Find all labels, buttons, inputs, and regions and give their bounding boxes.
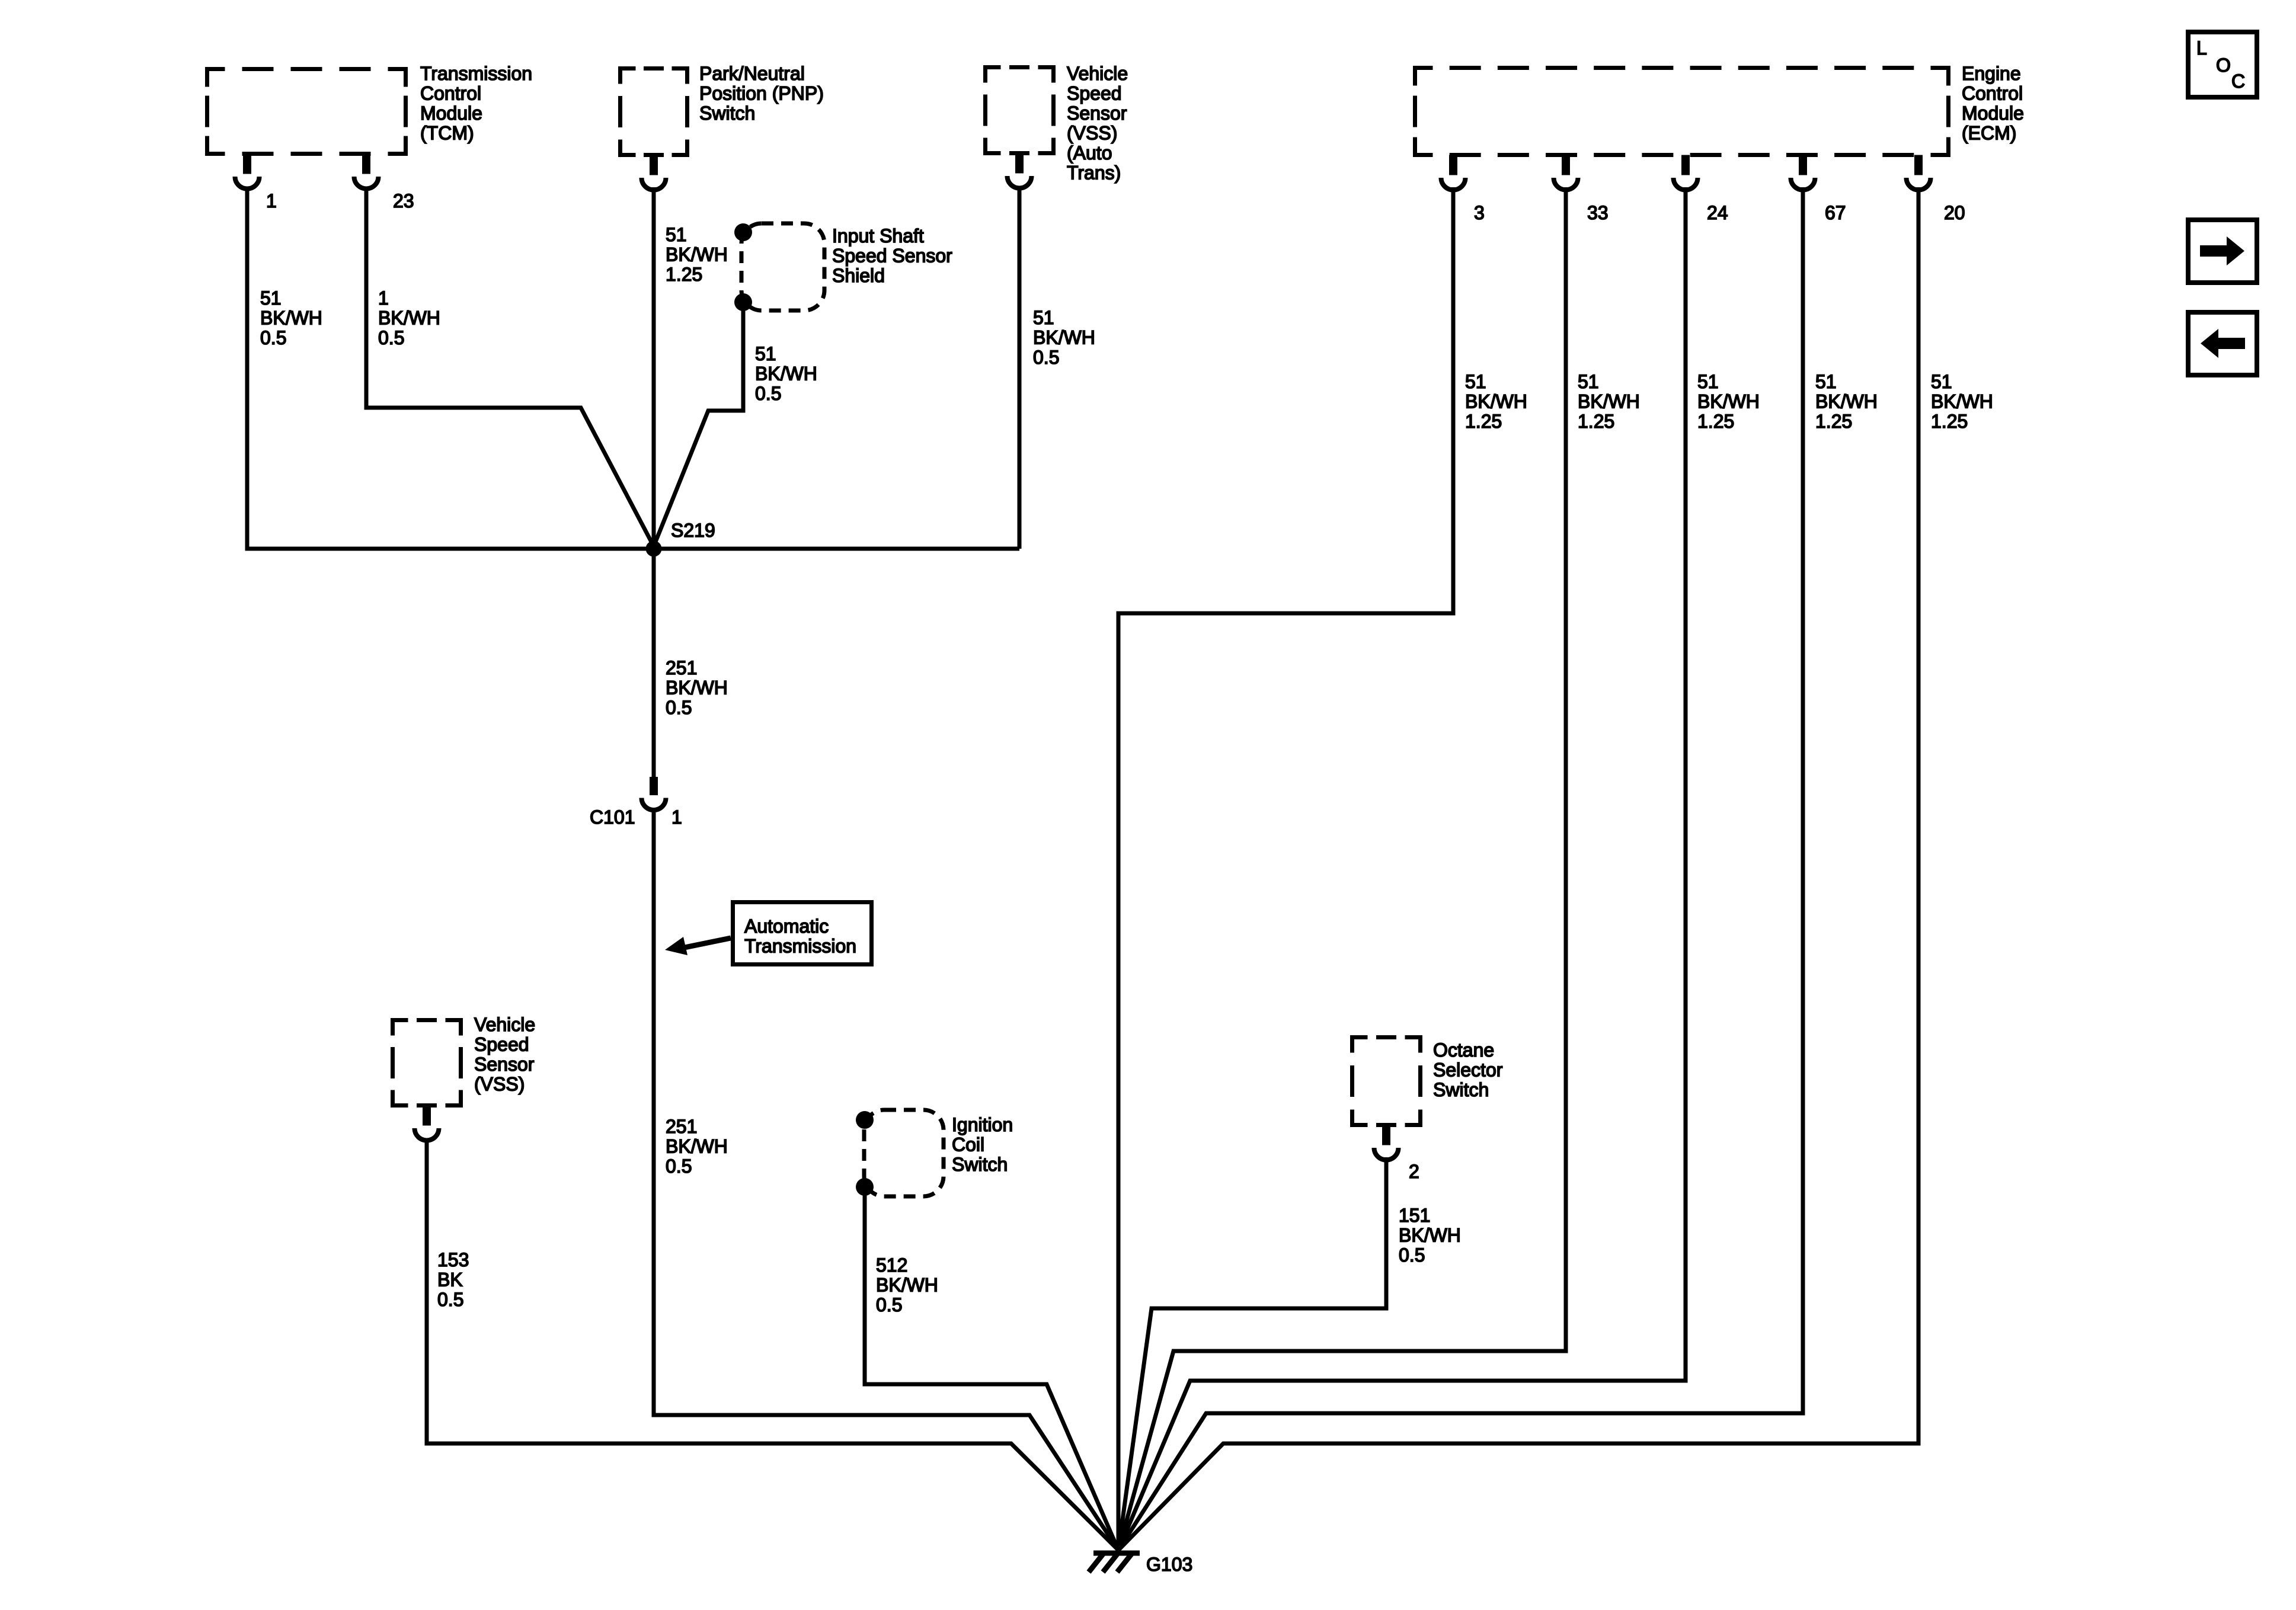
PNP connector [642,155,666,190]
right-arrow glyph [2200,236,2244,265]
svg-text:Switch: Switch [952,1154,1008,1175]
svg-text:(Auto: (Auto [1067,142,1112,164]
wire TCM pin 23 (1 BK/WH 0.5) down-right to S219 [366,187,654,546]
Octane selector switch box (dashed) [1352,1038,1421,1125]
svg-text:BK/WH: BK/WH [666,677,728,699]
svg-text:Speed Sensor: Speed Sensor [832,245,952,267]
svg-text:0.5: 0.5 [1399,1244,1425,1266]
svg-text:BK/WH: BK/WH [1578,391,1640,412]
ECM pin 67 label [1825,202,1846,223]
VSS auto-trans box (dashed) [986,68,1054,153]
VSS bottom connector [415,1106,439,1141]
ECM pin 3 label [1474,202,1485,223]
left-arrow legend box [2188,312,2257,375]
Octane selector pin 2 label [1409,1161,1419,1182]
svg-text:0.5: 0.5 [437,1289,463,1310]
ECM pin 3 connector [1441,155,1466,190]
svg-text:Automatic: Automatic [744,916,829,937]
G103 label [1146,1554,1192,1575]
svg-text:Ignition: Ignition [952,1114,1013,1135]
svg-text:51: 51 [1815,371,1837,392]
automatic transmission callout text [744,916,856,957]
C101 pin 1 label [671,806,682,828]
ECM pin 20 label [1944,202,1965,223]
wire label 1 BK/WH 0.5 (TCM pin23) [378,287,440,348]
wire VSS bottom 153 BK 0.5 to ground [427,1139,1118,1550]
svg-text:0.5: 0.5 [876,1294,902,1315]
splice S219 dot [646,541,662,557]
shield connection dots (ignition coil) [856,1111,874,1196]
svg-text:Position (PNP): Position (PNP) [699,83,824,104]
wire TCM pin 1 (51 BK/WH 0.5) down [245,187,250,549]
wire label 51 BK/WH 0.5 (VSS auto trans) [1033,307,1095,368]
svg-text:Transmission: Transmission [420,63,532,84]
LOC legend box [2188,32,2257,97]
svg-text:Octane: Octane [1433,1039,1494,1061]
svg-text:Switch: Switch [1433,1079,1489,1100]
TCM module box (dashed) [207,69,406,154]
wire ECM pin 33 (51 BK/WH 1.25) to ground [1118,187,1566,1550]
svg-text:BK/WH: BK/WH [260,308,322,329]
LOC legend letters [2196,37,2245,92]
wire 251 BK/WH 0.5 below C101 to ground [654,812,1118,1550]
svg-text:Switch: Switch [699,103,755,124]
svg-text:51: 51 [1578,371,1599,392]
svg-text:BK/WH: BK/WH [876,1275,938,1296]
svg-text:BK/WH: BK/WH [666,244,728,265]
wire ignition coil 512 BK/WH 0.5 to ground [865,1187,1118,1550]
svg-text:BK/WH: BK/WH [1033,327,1095,348]
wire label 153 BK 0.5 [437,1249,469,1310]
svg-text:BK: BK [437,1269,463,1291]
svg-text:(TCM): (TCM) [420,123,474,144]
svg-text:BK/WH: BK/WH [1697,391,1760,412]
svg-text:3: 3 [1474,202,1485,223]
wire ECM pin 3 (51 BK/WH 1.25) to ground [1118,187,1453,1550]
svg-text:1: 1 [378,287,389,309]
S219 label [671,520,715,541]
svg-text:S219: S219 [671,520,715,541]
TCM pin 23 connector [354,154,379,189]
svg-text:Trans): Trans) [1067,162,1121,184]
ECM pin 24 connector [1674,155,1698,190]
svg-text:BK/WH: BK/WH [1815,391,1878,412]
svg-text:BK/WH: BK/WH [666,1136,728,1157]
TCM pin 23 label [393,190,414,212]
svg-text:(ECM): (ECM) [1962,123,2016,144]
svg-text:(VSS): (VSS) [1067,123,1117,144]
ground G103 symbol [1089,1552,1140,1572]
ECM label text [1962,63,2024,144]
wire ECM pin 24 (51 BK/WH 1.25) to ground [1118,187,1686,1550]
svg-text:Speed: Speed [474,1034,529,1055]
svg-text:24: 24 [1707,202,1728,223]
wire label 251 BK/WH 0.5 (lower) [666,1116,728,1177]
svg-text:20: 20 [1944,202,1965,223]
svg-text:1.25: 1.25 [1465,411,1502,432]
svg-text:1.25: 1.25 [1578,411,1614,432]
left-arrow glyph [2201,329,2245,358]
svg-text:Sensor: Sensor [1067,103,1127,124]
svg-text:1.25: 1.25 [1815,411,1852,432]
svg-text:51: 51 [755,343,776,364]
svg-text:0.5: 0.5 [260,327,286,348]
svg-text:153: 153 [437,1249,469,1270]
wire label 51 BK/WH 1.25 (PNP) [666,224,728,285]
connector C101 [642,777,666,810]
automatic transmission arrow [665,937,731,955]
svg-text:Module: Module [1962,103,2024,124]
VSS auto-trans label text [1067,63,1128,184]
TCM pin 1 connector [235,154,260,189]
Octane selector label text [1433,1039,1503,1100]
shield connection dots (input shaft) [734,223,752,311]
svg-text:23: 23 [393,190,414,212]
wire label 51 BK/WH 1.25 (ECM 20) [1931,371,1993,432]
svg-text:51: 51 [1931,371,1952,392]
svg-text:1: 1 [671,806,682,828]
svg-text:251: 251 [666,1116,697,1137]
PNP label text [699,63,824,124]
Octane selector pin 2 connector [1374,1125,1399,1160]
ignition coil switch label text [952,1114,1013,1175]
wire octane 151 BK/WH 0.5 to ground [1118,1157,1386,1550]
svg-text:Speed: Speed [1067,83,1122,104]
svg-text:BK/WH: BK/WH [1399,1225,1461,1246]
svg-text:2: 2 [1409,1161,1419,1182]
ECM module box (dashed) [1415,68,1949,155]
svg-text:51: 51 [260,287,282,309]
VSS bottom box (dashed) [393,1020,461,1106]
wire ECM pin 20 (51 BK/WH 1.25) to ground [1118,187,1918,1550]
svg-text:BK/WH: BK/WH [1465,391,1527,412]
svg-text:O: O [2216,55,2231,76]
ECM pin 33 connector [1554,155,1578,190]
wire 251 BK/WH 0.5 from S219 to C101 [652,549,656,777]
wire ECM pin 67 (51 BK/WH 1.25) to ground [1118,187,1803,1550]
svg-text:1.25: 1.25 [666,264,702,285]
automatic transmission callout box [733,902,872,965]
wire VSS auto-trans (51 BK/WH 0.5) down [1018,187,1022,549]
svg-text:Engine: Engine [1962,63,2021,84]
ignition coil switch shield (dashed barrel) [864,1110,944,1196]
svg-text:BK/WH: BK/WH [755,363,817,385]
svg-text:Selector: Selector [1433,1060,1503,1081]
right-arrow legend box [2188,220,2257,283]
svg-text:1: 1 [266,190,277,212]
wire label 251 BK/WH 0.5 (upper) [666,657,728,718]
wire label 51 BK/WH 0.5 (TCM pin1) [260,287,322,348]
svg-text:512: 512 [876,1254,907,1276]
svg-text:C: C [2231,71,2245,92]
VSS bottom label text [474,1014,535,1095]
svg-text:151: 151 [1399,1205,1430,1226]
ECM pin 20 connector [1907,155,1931,190]
wire shield (51 BK/WH 0.5) to S219 [654,302,743,546]
wire label 151 BK/WH 0.5 [1399,1205,1461,1266]
ECM pin 67 connector [1791,155,1815,190]
svg-text:Module: Module [420,103,482,124]
wire S219 horizontal bus [245,547,1020,551]
svg-text:0.5: 0.5 [1033,347,1059,368]
wire PNP (51 BK/WH 1.25) down to S219 [652,187,656,549]
svg-text:Input Shaft: Input Shaft [832,225,924,247]
svg-text:Shield: Shield [832,265,885,286]
svg-text:0.5: 0.5 [666,697,692,718]
svg-text:G103: G103 [1146,1554,1192,1575]
svg-text:1.25: 1.25 [1931,411,1968,432]
svg-text:Vehicle: Vehicle [1067,63,1128,84]
svg-text:0.5: 0.5 [666,1156,692,1177]
svg-text:251: 251 [666,657,697,678]
input shaft speed sensor shield (dashed barrel) [741,223,824,311]
wire label 512 BK/WH 0.5 [876,1254,938,1315]
svg-text:51: 51 [1465,371,1486,392]
wire label 51 BK/WH 0.5 (shield) [755,343,817,404]
svg-text:51: 51 [1697,371,1719,392]
svg-text:Coil: Coil [952,1134,984,1156]
svg-text:BK/WH: BK/WH [1931,391,1993,412]
input shaft shield label text [832,225,952,286]
ECM pin 24 label [1707,202,1728,223]
svg-text:51: 51 [1033,307,1054,328]
svg-text:33: 33 [1587,202,1609,223]
svg-text:67: 67 [1825,202,1846,223]
svg-text:C101: C101 [590,806,635,828]
svg-text:Transmission: Transmission [744,936,856,957]
TCM pin 1 label [266,190,277,212]
svg-text:51: 51 [666,224,687,245]
VSS auto-trans connector [1008,153,1032,188]
svg-text:(VSS): (VSS) [474,1074,525,1095]
svg-text:Control: Control [420,83,481,104]
svg-text:1.25: 1.25 [1697,411,1734,432]
svg-text:BK/WH: BK/WH [378,308,440,329]
svg-text:Control: Control [1962,83,2023,104]
wire label 51 BK/WH 1.25 (ECM 67) [1815,371,1878,432]
svg-text:0.5: 0.5 [378,327,404,348]
TCM label text [420,63,532,144]
wire label 51 BK/WH 1.25 (ECM 24) [1697,371,1760,432]
wire label 51 BK/WH 1.25 (ECM 3) [1465,371,1527,432]
wire label 51 BK/WH 1.25 (ECM 33) [1578,371,1640,432]
svg-text:Vehicle: Vehicle [474,1014,535,1035]
svg-text:L: L [2196,37,2207,59]
svg-text:0.5: 0.5 [755,383,781,404]
PNP switch box (dashed) [621,69,687,155]
svg-text:Sensor: Sensor [474,1054,535,1075]
svg-text:Park/Neutral: Park/Neutral [699,63,805,84]
C101 label [590,806,635,828]
ECM pin 33 label [1587,202,1609,223]
